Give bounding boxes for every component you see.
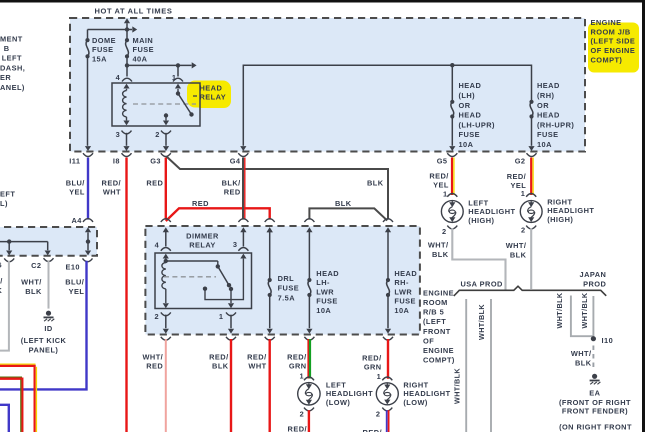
svg-text:WHT: WHT [248, 362, 266, 371]
wire G2 RED/YEL [531, 158, 533, 196]
wire I10 to ground dashed [592, 346, 594, 371]
label left headlight low [326, 380, 373, 407]
svg-text:2: 2 [376, 409, 381, 418]
head relay pin 3 lead to I8 [122, 131, 132, 151]
svg-text:BLK/: BLK/ [222, 178, 241, 187]
svg-text:RED: RED [224, 188, 241, 197]
svg-text:(ON RIGHT FRONT: (ON RIGHT FRONT [559, 423, 632, 432]
label instrument panel j/b (cut) [0, 35, 25, 93]
wire main fuse to relay bus [125, 58, 129, 67]
svg-text:T/: T/ [0, 276, 3, 285]
ground ID [44, 311, 55, 322]
dimmer relay pin 1 exit [226, 312, 236, 333]
svg-text:PROD: PROD [583, 279, 606, 288]
connector G3 [150, 153, 171, 165]
label red/grn right [362, 353, 381, 371]
connector I11 [69, 153, 93, 165]
node I10 splice [591, 336, 613, 345]
svg-text:(LH-UPR): (LH-UPR) [459, 120, 496, 129]
svg-text:BLK: BLK [575, 358, 592, 367]
wire head LH fuse to G5 [449, 118, 455, 151]
wire right high WHT/BLK [530, 228, 532, 289]
svg-text:GRN: GRN [364, 363, 382, 372]
dimmer block top connector drl [265, 219, 275, 233]
svg-text:RED/: RED/ [362, 353, 381, 362]
label wht/blk usa left (rotated) [453, 368, 462, 404]
svg-text:PANEL): PANEL) [29, 345, 59, 354]
svg-text:G5: G5 [437, 157, 448, 166]
label usa prod [461, 279, 504, 288]
head relay internal dashed link [133, 103, 196, 105]
wire I8 RED/WHT [125, 158, 127, 432]
svg-text:HEAD: HEAD [459, 81, 482, 90]
svg-text:G3: G3 [150, 157, 161, 166]
label blk lower [335, 199, 352, 208]
label left headlight high [468, 198, 515, 225]
svg-text:LH-: LH- [316, 278, 330, 287]
svg-text:OR: OR [537, 101, 549, 110]
label head lh fuse [459, 81, 496, 149]
label right headlight high [547, 197, 594, 224]
svg-text:BLK: BLK [212, 362, 229, 371]
svg-text:(LEFT KICK: (LEFT KICK [21, 336, 67, 345]
svg-text:RED/: RED/ [102, 178, 121, 187]
svg-text:ENGINE: ENGINE [423, 288, 454, 297]
fuse MAIN 40A [125, 30, 129, 59]
svg-text:RED/: RED/ [288, 425, 307, 432]
svg-text:DASH,: DASH, [0, 64, 25, 73]
svg-text:RED/: RED/ [247, 352, 266, 361]
dimmer block bottom connector bdrl [265, 337, 275, 340]
label dimmer relay [186, 231, 219, 249]
label head relay [193, 84, 226, 102]
Engine Room R/B dashed box (dimmer relay block) [145, 226, 420, 335]
svg-text:10A: 10A [316, 306, 331, 315]
svg-text:ROOM J/B: ROOM J/B [591, 27, 631, 36]
svg-text:3: 3 [116, 130, 121, 139]
highlight head relay label [187, 81, 231, 109]
wire dome fuse branch [87, 30, 89, 39]
label dome fuse [92, 36, 116, 64]
node usa/japan production split brace [454, 286, 606, 296]
lamp right headlight low [376, 372, 398, 419]
svg-text:15A: 15A [92, 54, 107, 63]
svg-text:HEADLIGHT: HEADLIGHT [468, 207, 515, 216]
fuse HEAD LH-LWR 10A [306, 232, 312, 334]
dimmer relay pin 2 exit [161, 312, 171, 333]
head relay pin 1 connector [173, 65, 183, 88]
page top border [0, 0, 644, 3]
svg-text:3: 3 [233, 240, 238, 249]
label wht/blk I10 [571, 349, 592, 367]
dimmer relay pin 4 [161, 232, 171, 263]
wire japan prod left [571, 296, 594, 337]
label main fuse [133, 36, 155, 64]
connector G5 [437, 153, 458, 165]
label drl fuse [278, 274, 300, 302]
label ground ID [21, 324, 67, 354]
svg-text:RED: RED [146, 178, 163, 187]
connector E10 [65, 258, 92, 271]
label engine room r/b [423, 288, 455, 364]
label blk upper [367, 178, 384, 187]
a4 internal bus [0, 239, 48, 243]
svg-text:(HIGH): (HIGH) [547, 215, 573, 224]
page right border [642, 0, 645, 432]
svg-text:1: 1 [521, 189, 526, 198]
lamp left headlight high [441, 189, 463, 236]
dimmer block bottom connector b2 [161, 337, 171, 340]
svg-text:ANEL): ANEL) [0, 83, 25, 92]
connector G4 [230, 153, 249, 165]
svg-text:BLU/: BLU/ [65, 278, 84, 287]
svg-text:BLK: BLK [510, 250, 527, 259]
svg-text:WHT/: WHT/ [428, 241, 449, 250]
svg-text:1: 1 [377, 372, 382, 381]
wire relay feed bus with arrow [127, 62, 197, 68]
connector 16 (cut) [0, 258, 14, 269]
svg-text:YEL: YEL [69, 188, 85, 197]
svg-text:10A: 10A [394, 306, 409, 315]
label blu/yel E10 [65, 278, 84, 296]
connector C2 [31, 258, 53, 270]
svg-text:RELAY: RELAY [189, 240, 216, 249]
dimmer relay switch arm [218, 266, 231, 287]
svg-text:I11: I11 [69, 157, 80, 166]
svg-text:40A: 40A [133, 54, 148, 63]
dimmer relay pin 3 connector [238, 232, 248, 251]
label wht/blk japan right (rotated) [580, 292, 589, 328]
svg-text:1: 1 [299, 372, 304, 381]
svg-text:B: B [4, 44, 10, 53]
head relay coil [123, 89, 130, 126]
svg-text:A4: A4 [71, 216, 82, 225]
svg-text:EFT: EFT [0, 189, 15, 198]
label red/ right cut [363, 428, 382, 432]
svg-text:FUSE: FUSE [278, 284, 300, 293]
svg-text:WHT/BLK: WHT/BLK [477, 304, 486, 340]
label head rh-lwr fuse [394, 269, 417, 315]
svg-text:2: 2 [154, 312, 159, 321]
svg-text:JAPAN: JAPAN [580, 270, 607, 279]
wire G5 RED/YEL [452, 158, 454, 196]
svg-text:HEAD: HEAD [537, 111, 560, 120]
label red/ left cut [288, 425, 307, 432]
wire BLK jumper lwr fuses [309, 208, 387, 220]
wire below right low bulb BLU+RED [387, 410, 389, 432]
wire blue L bottom-left [0, 405, 9, 432]
svg-text:RED/: RED/ [209, 352, 228, 361]
svg-text:1: 1 [172, 73, 177, 82]
svg-text:HEADLIGHT: HEADLIGHT [326, 389, 373, 398]
head relay pin 2 contact [163, 113, 169, 125]
dimmer block bottom connector brhl [383, 337, 393, 340]
svg-text:USA PROD: USA PROD [461, 279, 504, 288]
wire RED/WHT low [269, 339, 271, 432]
label head lh-lwr fuse [316, 269, 339, 315]
svg-text:OR: OR [459, 101, 471, 110]
svg-text:RED: RED [146, 362, 163, 371]
dimmer relay pin1 contact [228, 287, 234, 308]
a4 internal drop left [6, 242, 12, 256]
label red/wht [102, 178, 121, 196]
svg-text:WHT/BLK: WHT/BLK [555, 292, 564, 328]
svg-text:FUSE: FUSE [92, 45, 114, 54]
svg-text:HEAD: HEAD [537, 81, 560, 90]
wire japan prod right [592, 296, 594, 339]
fuse HEAD LH 10A [450, 100, 454, 119]
label japan prod [580, 270, 607, 288]
label blk/red [222, 178, 241, 196]
label engine room j/b [591, 18, 636, 65]
svg-text:DIMMER: DIMMER [186, 231, 219, 240]
wire head LH fuse drop [451, 65, 453, 100]
svg-text:ID: ID [44, 324, 53, 333]
Instrument panel J/B dashed box A4 [0, 227, 97, 256]
highlight engine room j/b label [588, 23, 639, 73]
label t/ k fragments [0, 276, 3, 295]
svg-text:RED/: RED/ [507, 172, 526, 181]
svg-text:BLU/: BLU/ [66, 178, 85, 187]
svg-text:(RH-UPR): (RH-UPR) [537, 120, 574, 129]
dimmer block top connector p3 [238, 219, 248, 233]
svg-text:COMPT): COMPT) [423, 356, 455, 365]
svg-text:(FRONT OF RIGHT: (FRONT OF RIGHT [559, 398, 631, 407]
head relay pin 2 lead to G3 [161, 131, 171, 151]
label blu/yel [66, 178, 85, 196]
svg-text:FUSE: FUSE [394, 297, 416, 306]
wire G3 BLK to head RH-LWR fuse [167, 157, 389, 220]
svg-text:1: 1 [443, 189, 448, 198]
pin number 2 [155, 130, 160, 139]
wire C2 wht/blk to ground [48, 261, 50, 309]
svg-text:R/B 5: R/B 5 [423, 308, 444, 317]
svg-text:G2: G2 [515, 157, 526, 166]
svg-text:FUSE: FUSE [537, 130, 559, 139]
dimmer block top connector lhl [304, 219, 314, 233]
wire usa prod left [465, 299, 467, 432]
svg-text:BLK: BLK [25, 287, 42, 296]
svg-text:ENGINE: ENGINE [591, 18, 622, 27]
svg-text:WHT/: WHT/ [506, 241, 527, 250]
label ground EA [559, 389, 631, 416]
svg-text:(HIGH): (HIGH) [468, 216, 494, 225]
wire G3 RED down [165, 158, 167, 220]
svg-text:FUSE: FUSE [133, 45, 155, 54]
connector G2 [515, 153, 537, 165]
svg-text:WHT/BLK: WHT/BLK [453, 368, 462, 404]
head relay switch arm [176, 89, 194, 117]
wire head fuse bus [240, 63, 531, 151]
node hot-at-all-times feed [124, 18, 130, 29]
svg-text:4: 4 [155, 241, 160, 250]
svg-text:(RH): (RH) [537, 91, 554, 100]
svg-text:(LOW): (LOW) [326, 398, 350, 407]
svg-text:2: 2 [155, 130, 160, 139]
fuse HEAD RH 10A [529, 100, 533, 119]
svg-text:FUSE: FUSE [316, 297, 338, 306]
svg-text:7.5A: 7.5A [278, 293, 296, 302]
wire WHT/RED [165, 339, 167, 432]
fuse HEAD RH-LWR 10A [385, 232, 391, 334]
dimmer block top connector rhl [383, 219, 393, 233]
svg-text:MAIN: MAIN [133, 36, 154, 45]
dimmer block bottom connector b1 [226, 337, 236, 340]
svg-text:BLK: BLK [367, 178, 384, 187]
svg-text:HEAD: HEAD [316, 269, 339, 278]
svg-text:E10: E10 [65, 262, 80, 271]
svg-text:MENT: MENT [0, 35, 23, 44]
wire red/yel exit bottom-left [0, 364, 36, 432]
svg-text:(LH): (LH) [459, 91, 476, 100]
svg-text:HEADLIGHT: HEADLIGHT [403, 389, 450, 398]
svg-text:LEFT: LEFT [326, 380, 346, 389]
wire G4 BLK/RED [243, 158, 245, 220]
fuse DOME 15A [85, 38, 89, 59]
svg-text:RED/: RED/ [429, 171, 448, 180]
wire below left low bulb [308, 410, 310, 432]
wire left high WHT/BLK [452, 228, 505, 290]
svg-text:HEAD: HEAD [200, 84, 223, 93]
svg-text:I10: I10 [602, 336, 614, 345]
a4 internal drop c2 [45, 242, 51, 256]
svg-text:WHT: WHT [103, 188, 121, 197]
svg-text:BLK: BLK [432, 250, 449, 259]
pin number 1 dimmer [219, 312, 224, 321]
label red G3 [146, 178, 163, 187]
svg-text:LWR: LWR [316, 287, 334, 296]
wire RED/BLK [230, 339, 232, 432]
label red/grn left [287, 352, 306, 370]
svg-text:RIGHT: RIGHT [403, 380, 428, 389]
svg-text:RIGHT: RIGHT [547, 197, 572, 206]
wire RED/GRN left [308, 339, 310, 379]
svg-text:LEFT: LEFT [468, 198, 488, 207]
dimmer relay pin3 path [203, 254, 247, 300]
svg-text:OF: OF [423, 336, 434, 345]
svg-text:K: K [0, 286, 3, 295]
svg-text:OF ENGINE: OF ENGINE [591, 46, 636, 55]
svg-text:(LEFT SIDE: (LEFT SIDE [591, 37, 636, 46]
dimmer block bottom connector blhl [304, 337, 314, 340]
svg-text:1: 1 [219, 312, 224, 321]
svg-text:RED/: RED/ [287, 352, 306, 361]
label on right front (cut) [559, 423, 632, 432]
svg-text:FUSE: FUSE [459, 130, 481, 139]
svg-text:ER: ER [0, 73, 11, 82]
label wht/blk usa right (rotated) [477, 304, 486, 340]
label right headlight low [403, 380, 450, 407]
label red branch [192, 199, 209, 208]
label wht/blk japan left (rotated) [555, 292, 564, 328]
svg-text:10A: 10A [537, 140, 552, 149]
label wht/blk right high [506, 241, 527, 259]
head relay pin 4 connector [122, 65, 132, 88]
pin number 3 dimmer [233, 240, 238, 249]
wire dome fuse to I11 [85, 58, 91, 151]
wire E10 blu/yel down-left [0, 261, 87, 390]
svg-text:RED/: RED/ [363, 428, 382, 432]
svg-text:LWR: LWR [394, 287, 412, 296]
label red/blk [209, 352, 229, 370]
connector I8 [113, 153, 132, 165]
wire left wht/blk cut [0, 261, 9, 351]
svg-text:DRL: DRL [278, 274, 295, 283]
svg-text:RH-: RH- [394, 278, 409, 287]
wire RED right low [387, 339, 389, 379]
lamp right headlight high [520, 189, 542, 235]
svg-text:YEL: YEL [69, 287, 85, 296]
svg-text:C2: C2 [31, 261, 41, 270]
label red/yel G5 [429, 171, 448, 189]
svg-text:DOME: DOME [92, 36, 116, 45]
svg-text:WHT/: WHT/ [571, 349, 592, 358]
wire head RH fuse to G2 [528, 118, 534, 151]
connector A4 [71, 216, 93, 233]
pin number 3 [116, 130, 121, 139]
svg-text:WHT/: WHT/ [143, 352, 164, 361]
label wht/red [143, 352, 164, 370]
fuse DRL 7.5A [267, 227, 273, 333]
svg-text:ENGINE: ENGINE [423, 346, 454, 355]
wire usa prod right [490, 299, 492, 432]
label wht/blk C2 [21, 278, 42, 296]
wire top feed bus [88, 26, 138, 32]
a4 internal wire I11 to E10 [85, 232, 91, 255]
label hot at all times [95, 7, 173, 16]
svg-text:(LOW): (LOW) [403, 398, 427, 407]
svg-text:LEFT: LEFT [2, 54, 22, 63]
svg-text:EA: EA [589, 389, 600, 398]
svg-text:10A: 10A [459, 140, 474, 149]
svg-text:2: 2 [300, 410, 305, 419]
svg-text:COMPT): COMPT) [591, 56, 623, 65]
svg-text:I8: I8 [113, 157, 120, 166]
svg-text:HEAD: HEAD [459, 111, 482, 120]
pin number 2 dimmer [154, 312, 159, 321]
dimmer relay box [155, 253, 252, 309]
svg-text:L): L) [0, 199, 8, 208]
relay HEAD RELAY box [112, 83, 200, 126]
wire I11 BLU/YEL to A4 [87, 158, 89, 220]
svg-text:YEL: YEL [433, 181, 449, 190]
svg-text:BLK: BLK [335, 199, 352, 208]
label red/yel G2 [507, 172, 526, 190]
svg-text:RELAY: RELAY [200, 92, 227, 101]
svg-text:WHT/: WHT/ [21, 278, 42, 287]
svg-text:WHT/BLK: WHT/BLK [580, 292, 589, 328]
pin number 1 [172, 73, 177, 82]
svg-text:2: 2 [442, 227, 447, 236]
svg-text:HOT AT ALL TIMES: HOT AT ALL TIMES [95, 7, 173, 16]
dimmer block top connector p4 [161, 219, 171, 233]
label wht/blk left high [428, 241, 449, 259]
ground EA [590, 374, 601, 385]
dimmer relay coil [162, 263, 169, 309]
svg-text:GRN: GRN [289, 362, 307, 371]
Engine Room J/B dashed box [70, 18, 585, 152]
pin number 4 [116, 73, 121, 82]
svg-text:HEADLIGHT: HEADLIGHT [547, 206, 594, 215]
svg-text:G4: G4 [230, 157, 241, 166]
dimmer relay switch pivot [166, 261, 220, 269]
wire G3 RED branch to DRL fuse [166, 208, 270, 221]
svg-text:FRONT: FRONT [423, 327, 451, 336]
label left kick (cut) [0, 189, 15, 208]
label red/wht low [247, 352, 266, 370]
svg-text:FRONT FENDER): FRONT FENDER) [562, 407, 628, 416]
label head rh fuse [537, 81, 574, 149]
